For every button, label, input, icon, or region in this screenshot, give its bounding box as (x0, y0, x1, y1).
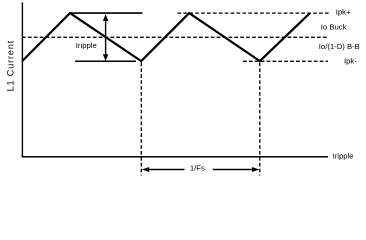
inductor current waveform L1 (22, 13, 310, 61)
1/Fs horizontal double-headed arrow right segment (213, 169, 255, 171)
svg-text:Ipk-: Ipk- (344, 56, 357, 65)
svg-text:Ipk+: Ipk+ (336, 7, 351, 16)
Ipk- solid reference line (bottom of Iripple arrow) (75, 60, 136, 62)
x-axis (time axis, extends right to Iripple label) (22, 156, 328, 158)
dashed vertical at first valley (left 1/Fs boundary) (140, 63, 142, 176)
Ipk+ solid reference line (top of Iripple arrow) (70, 12, 142, 14)
Ipk- dashed level line (243, 60, 328, 62)
Ipk+ dashed level line (178, 12, 332, 14)
svg-text:L1 Current: L1 Current (5, 40, 15, 92)
svg-text:Io/(1-D) B-B: Io/(1-D) B-B (319, 42, 360, 51)
dashed vertical at second valley (right 1/Fs boundary) (259, 63, 261, 176)
Iripple arrow upper head (103, 14, 109, 21)
y-axis (L1 Current axis) (21, 3, 23, 158)
Iripple vertical double-headed arrow (105, 18, 107, 56)
1/Fs arrow left head (142, 167, 149, 172)
1/Fs arrow right head (252, 167, 259, 172)
1/Fs horizontal double-headed arrow left segment (147, 169, 185, 171)
svg-text:1/Fs: 1/Fs (190, 163, 205, 172)
Iripple arrow lower head (103, 54, 109, 61)
Io Buck dashed level line (22, 36, 329, 38)
svg-text:Iripple: Iripple (333, 151, 354, 160)
svg-text:Iripple: Iripple (76, 41, 97, 50)
svg-text:Io Buck: Io Buck (321, 23, 347, 32)
